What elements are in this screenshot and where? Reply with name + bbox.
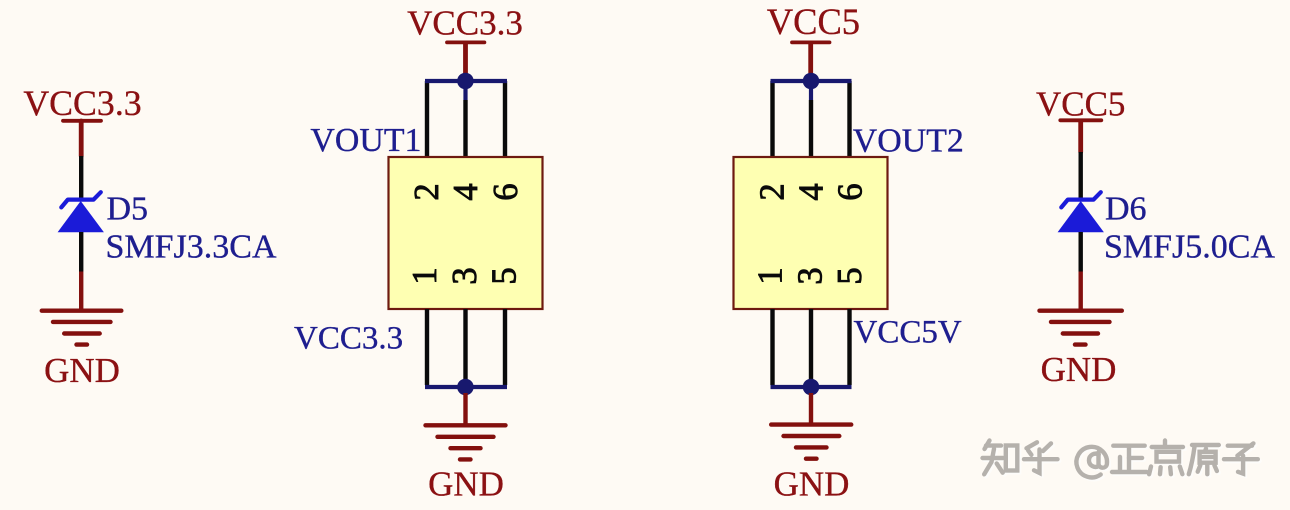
- svg-text:VOUT2: VOUT2: [853, 123, 964, 160]
- svg-text:3: 3: [791, 267, 829, 284]
- ground symbol (middle-right): [771, 425, 851, 459]
- svg-text:SMFJ3.3CA: SMFJ3.3CA: [106, 229, 277, 266]
- wire bottom-right vertical: [503, 309, 507, 385]
- svg-text:VOUT1: VOUT1: [310, 122, 421, 159]
- diode D5 TVS symbol: [58, 192, 104, 232]
- wire bottom-left vertical (right block): [770, 309, 774, 385]
- wire bottom-center pin: [463, 309, 467, 380]
- svg-text:VCC5: VCC5: [767, 1, 860, 42]
- wire VCC5 to D6: [1078, 152, 1082, 199]
- junction dot top (middle-left): [457, 73, 474, 90]
- wire bottom horizontal navy (right block): [771, 385, 852, 389]
- junction dot top (right block): [803, 73, 820, 90]
- svg-text:1: 1: [751, 267, 789, 284]
- ground stub (right): [1078, 272, 1082, 310]
- junction dot bottom (middle-left): [457, 379, 474, 396]
- power port VCC5 bar symbol: [792, 42, 830, 73]
- connector body (middle-left): [389, 157, 543, 309]
- svg-text:5: 5: [485, 267, 523, 284]
- wire top-right vertical (right block): [847, 81, 851, 157]
- diode D6 TVS symbol: [1058, 192, 1104, 232]
- svg-text:VCC3.3: VCC3.3: [23, 83, 141, 123]
- wire navy stub under dot: [463, 81, 467, 100]
- wire top-center pin (right block): [809, 100, 813, 157]
- wire VCC3.3 to D5: [79, 156, 83, 199]
- svg-text:5: 5: [831, 267, 869, 284]
- svg-text:SMFJ5.0CA: SMFJ5.0CA: [1104, 229, 1275, 266]
- power port VCC3.3 (left) bar symbol: [63, 121, 101, 156]
- wire top-left vertical (right block): [770, 81, 774, 157]
- ground symbol (middle-left): [426, 425, 506, 459]
- ground symbol (right): [1040, 311, 1122, 345]
- svg-text:VCC3.3: VCC3.3: [294, 321, 403, 357]
- svg-text:1: 1: [406, 267, 444, 284]
- svg-text:4: 4: [447, 183, 485, 200]
- svg-text:6: 6: [487, 183, 525, 200]
- power port VCC5 (right) bar symbol: [1060, 120, 1101, 152]
- wire bottom-left vertical: [425, 309, 429, 385]
- watermark char 点: [1149, 441, 1183, 475]
- ground symbol (left): [42, 311, 122, 345]
- navy stub under dot (right block): [809, 81, 813, 100]
- svg-text:GND: GND: [1041, 350, 1117, 389]
- svg-text:GND: GND: [44, 351, 120, 390]
- watermark char 知: [983, 441, 1018, 475]
- watermark char @: [1076, 447, 1107, 478]
- watermark char 乎: [1024, 442, 1058, 473]
- watermark char 子: [1224, 443, 1258, 473]
- ground stub (middle-left): [463, 393, 467, 424]
- svg-text:VCC5: VCC5: [1036, 85, 1125, 124]
- power port VCC3.3 bar symbol: [447, 42, 484, 73]
- svg-text:2: 2: [408, 183, 446, 200]
- svg-text:D5: D5: [107, 191, 149, 228]
- wire top horizontal (navy): [425, 79, 507, 83]
- svg-text:D6: D6: [1105, 191, 1147, 228]
- watermark char 原: [1189, 445, 1219, 474]
- svg-text:2: 2: [753, 183, 791, 200]
- svg-text:6: 6: [831, 183, 869, 200]
- wire top-right vertical: [503, 81, 507, 157]
- wire bottom-center pin (right block): [809, 309, 813, 380]
- junction dot bottom (right block): [803, 379, 820, 396]
- ground stub (left): [79, 272, 83, 310]
- svg-text:VCC3.3: VCC3.3: [407, 4, 523, 43]
- svg-text:3: 3: [446, 267, 484, 284]
- wire top horizontal navy (right block): [771, 79, 852, 83]
- wire bottom horizontal (navy): [425, 385, 507, 389]
- connector body (middle-right): [734, 157, 888, 309]
- wire top-center pin: [463, 100, 467, 157]
- svg-text:VCC5V: VCC5V: [854, 315, 962, 351]
- wire D6 to GND: [1078, 232, 1082, 272]
- ground stub (middle-right): [809, 393, 813, 423]
- svg-text:4: 4: [792, 183, 830, 200]
- svg-text:GND: GND: [774, 465, 850, 504]
- watermark char 正: [1112, 446, 1147, 472]
- wire D5 to GND: [79, 232, 83, 272]
- wire top-left vertical: [425, 81, 429, 157]
- svg-text:GND: GND: [428, 465, 504, 504]
- wire bottom-right vertical (right block): [847, 309, 851, 385]
